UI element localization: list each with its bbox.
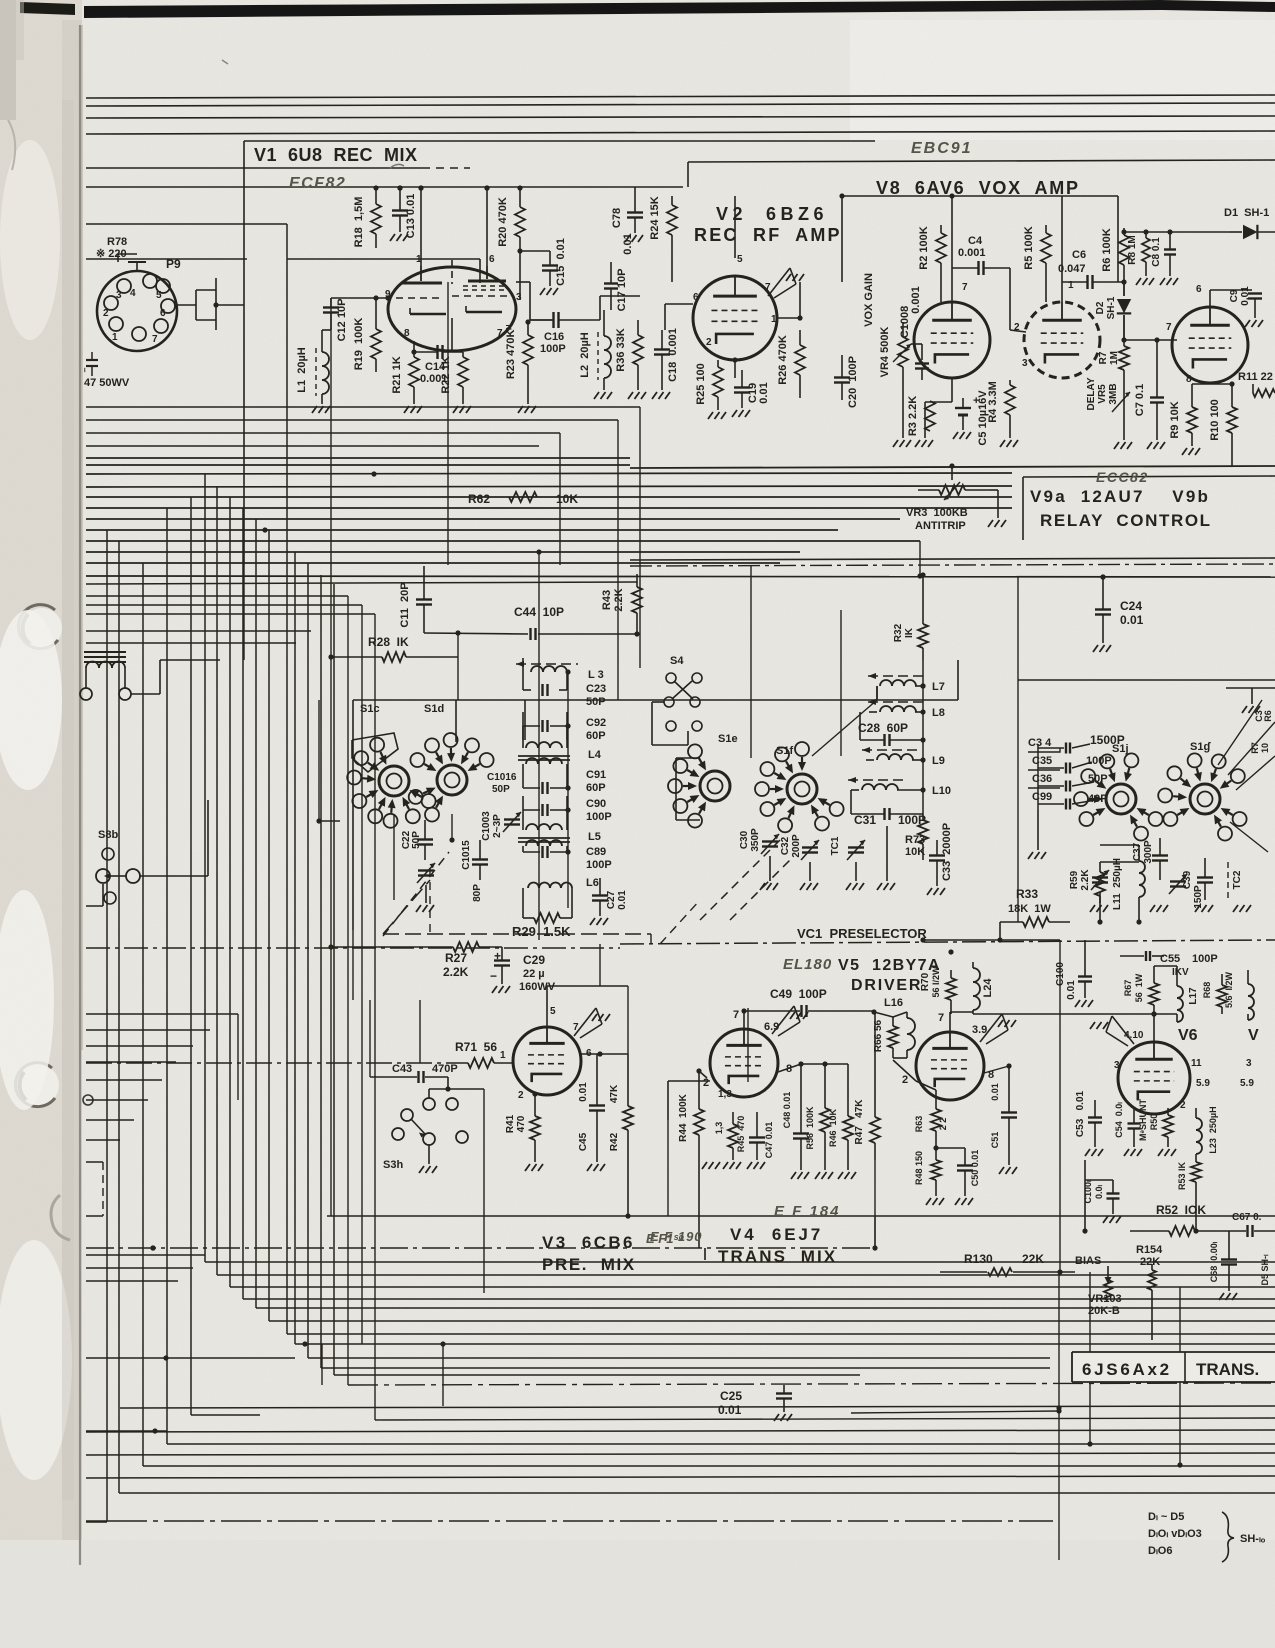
capacitor C24: [1095, 608, 1111, 610]
svg-text:5.6 I/2W: 5.6 I/2W: [1224, 971, 1234, 1008]
ground C78: [625, 235, 630, 242]
capacitor C6: [1086, 275, 1088, 289]
wire row 1413: [851, 1411, 1059, 1413]
resistor R11: [1253, 389, 1275, 397]
wire upper nest row 407: [86, 406, 640, 408]
svg-text:5.9: 5.9: [1196, 1078, 1210, 1089]
svg-text:ANTITRIP: ANTITRIP: [915, 520, 966, 532]
resistor R67: [1149, 983, 1159, 1005]
wire L bank2 rail: [922, 660, 924, 814]
capacitor C99: [1065, 799, 1067, 810]
resistor R7: [1119, 346, 1129, 370]
tube V9b: [1172, 307, 1248, 383]
wire S3h box: [483, 1089, 485, 1293]
svg-text:0.01: 0.01: [718, 1403, 742, 1417]
capacitor C78: [627, 211, 643, 213]
svg-text:C91: C91: [586, 769, 606, 781]
wire L bank top: [455, 700, 457, 742]
wire V8 plate up: [951, 196, 953, 302]
svg-text:C29: C29: [523, 953, 545, 967]
svg-text:S1f: S1f: [776, 745, 793, 757]
wire relay box top: [630, 466, 1275, 468]
tube V5a: [710, 1029, 778, 1097]
wire driver plate bus: [740, 1007, 748, 1009]
svg-text:R20 470K: R20 470K: [497, 197, 509, 247]
ground C22: [416, 905, 421, 912]
wire P9 stub: [136, 262, 138, 271]
svg-text:C43: C43: [392, 1063, 412, 1075]
svg-text:C51: C51: [990, 1132, 1000, 1149]
ground R23: [518, 406, 523, 413]
capacitor C48: [793, 1132, 809, 1134]
svg-text:C15 0.01: C15 0.01: [555, 238, 567, 286]
svg-text:S1ɠ: S1ɠ: [1190, 741, 1211, 753]
svg-text:V3 6CB6: V3 6CB6: [542, 1233, 635, 1252]
svg-text:80P: 80P: [472, 884, 483, 902]
svg-text:L2 20µH: L2 20µH: [579, 332, 591, 378]
svg-text:2: 2: [103, 308, 109, 319]
wire VR3 up: [951, 466, 953, 480]
transformer core: [84, 651, 126, 653]
wire cascade B4: [166, 508, 168, 1444]
svg-text:C1015: C1015: [461, 840, 472, 870]
svg-text:R50: R50: [1149, 1114, 1159, 1131]
wire C16 to C17: [599, 296, 601, 320]
svg-text:5: 5: [737, 254, 743, 265]
resistor R5: [1041, 233, 1051, 263]
inductor L2: [604, 336, 611, 350]
resistor R43: [632, 587, 642, 613]
wire C4 right: [1009, 268, 1011, 330]
ground C19: [732, 410, 737, 417]
resistor R52 zig: [1169, 1226, 1195, 1236]
wire cascade B1: [106, 530, 108, 1521]
node left dot2: [150, 1245, 155, 1250]
svg-text:L 3: L 3: [588, 669, 604, 681]
svg-text:E F 184: E F 184: [774, 1203, 841, 1220]
wire cascade extra verticals: [347, 596, 349, 1385]
dashed tri line: [383, 852, 449, 936]
wire L bank right rail: [567, 672, 569, 908]
wire top bus 5: [86, 167, 430, 169]
svg-text:R24 15K: R24 15K: [649, 196, 661, 239]
resistor R44: [694, 1109, 704, 1135]
svg-text:C28 60P: C28 60P: [858, 721, 908, 735]
arrow L9: [862, 749, 918, 751]
svg-text:0.01: 0.01: [1240, 286, 1251, 306]
wire V9b plate: [1209, 290, 1211, 307]
wire V1 pin9 left: [331, 297, 388, 299]
svg-text:SH-1: SH-1: [1106, 296, 1117, 319]
wire V3 plate: [546, 1010, 548, 1027]
svg-text:L16: L16: [884, 997, 903, 1009]
node R53 bottom: [1193, 1228, 1198, 1233]
wire cascade A10: [320, 575, 322, 1368]
wire relay bottom line: [630, 558, 1275, 560]
ground VR3: [988, 520, 993, 527]
capacitor C22: [417, 838, 433, 840]
svg-text:Dₗ ~ D5: Dₗ ~ D5: [1148, 1511, 1184, 1523]
potentiometer VR5: [1112, 392, 1130, 412]
svg-text:BIAS: BIAS: [1075, 1255, 1101, 1267]
svg-text:C89: C89: [586, 846, 606, 858]
wire vert x705: [704, 1248, 706, 1260]
ground C31b: [877, 883, 882, 890]
resistor R42: [623, 1106, 633, 1130]
wire VR4 wiper: [911, 343, 922, 345]
svg-text:C92: C92: [586, 717, 606, 729]
connector P9 pins: [143, 274, 157, 288]
resistor R26: [795, 345, 805, 375]
svg-text:IKV: IKV: [1172, 967, 1189, 978]
ground V6 cath: [1124, 1149, 1129, 1156]
svg-text:C47 0.01: C47 0.01: [764, 1122, 774, 1159]
wire vert x875b: [874, 1216, 876, 1248]
switch wafer S1c: [379, 766, 409, 796]
inductor L16: [907, 1018, 915, 1034]
capacitor C68: [1221, 1258, 1237, 1260]
wire cascade A7: [286, 224, 288, 1334]
capacitor C90: [541, 804, 543, 816]
svg-text:10K: 10K: [905, 846, 925, 858]
svg-text:R59: R59: [1069, 870, 1080, 889]
page fold edge line: [79, 25, 81, 1565]
transformer L4: [526, 742, 538, 748]
ground C8: [1160, 278, 1165, 285]
svg-text:0.01: 0.01: [1120, 613, 1144, 627]
svg-text:3: 3: [1022, 358, 1028, 369]
svg-text:2: 2: [518, 1090, 524, 1101]
ground R22: [453, 406, 458, 413]
svg-text:7: 7: [962, 282, 968, 293]
arrow L3: [516, 663, 578, 665]
wire V2 grid left: [665, 303, 693, 305]
antenna flag V6: [1112, 1016, 1134, 1044]
svg-text:0.01: 0.01: [990, 1083, 1000, 1101]
crease mark left: [51, 1195, 70, 1240]
svg-text:47 50WV: 47 50WV: [84, 377, 130, 389]
svg-text:PRE. MIX: PRE. MIX: [542, 1255, 636, 1274]
resistor R23: [523, 335, 533, 365]
resistor R28 zig: [382, 652, 406, 662]
wire V3 box bottom: [327, 1215, 1275, 1217]
coil L10: [862, 784, 874, 790]
ground C27: [590, 918, 595, 925]
arrow L10: [848, 779, 904, 781]
svg-text:S3h: S3h: [383, 1159, 403, 1171]
resistor R8: [1142, 238, 1150, 262]
inductor L17: [1177, 986, 1183, 998]
svg-text:V: V: [1248, 1027, 1259, 1044]
capacitor C36: [1065, 781, 1067, 792]
wire mid bus 2: [86, 464, 630, 466]
svg-text:C31: C31: [854, 813, 876, 827]
svg-text:V1 6U8 REC MIX: V1 6U8 REC MIX: [254, 145, 418, 165]
wire V1 stage box top: [244, 140, 875, 142]
svg-text:C35: C35: [1032, 755, 1052, 767]
wire bus y256b: [287, 258, 480, 260]
svg-text:18K 1W: 18K 1W: [1008, 903, 1051, 915]
capacitor C89: [541, 846, 543, 858]
svg-text:350P: 350P: [750, 828, 761, 852]
svg-text:C13 0.01: C13 0.01: [405, 194, 417, 239]
coil L7: [880, 680, 892, 686]
svg-text:EBC91: EBC91: [911, 140, 973, 157]
resistor R47: [870, 1117, 880, 1143]
svg-text:C6: C6: [1072, 249, 1086, 261]
wire vert x1060: [1059, 940, 1061, 1272]
svg-text:MᵊSHUNT: MᵊSHUNT: [1138, 1099, 1148, 1141]
capacitor C12: [323, 306, 339, 308]
svg-text:R32: R32: [893, 623, 904, 642]
svg-text:R78: R78: [107, 236, 127, 248]
capacitor C49: [800, 1005, 802, 1017]
svg-text:C78: C78: [611, 208, 623, 228]
inductor L11: [1139, 861, 1145, 873]
svg-text:3MB: 3MB: [1108, 383, 1119, 404]
resistor R33 zig: [1023, 917, 1049, 927]
svg-text:R28 IK: R28 IK: [368, 635, 409, 649]
svg-text:C1003: C1003: [481, 811, 492, 841]
wire driver junction: [950, 1011, 973, 1013]
capacitor C35: [1065, 763, 1067, 774]
capacitor C1008: [915, 362, 929, 364]
svg-text:1M: 1M: [1109, 351, 1120, 365]
svg-text:S1c: S1c: [360, 703, 380, 715]
svg-text:C99: C99: [1032, 791, 1052, 803]
wire top bus 4: [86, 131, 1275, 134]
svg-text:V6: V6: [1178, 1027, 1198, 1044]
capacitor C15: [542, 264, 558, 266]
capacitor C50: [957, 1164, 973, 1166]
svg-text:L24: L24: [982, 978, 994, 998]
wire V8 box top: [688, 160, 1275, 162]
svg-text:8: 8: [404, 328, 410, 339]
capacitor C54: [1128, 1122, 1141, 1124]
svg-text:100P: 100P: [1086, 755, 1112, 767]
resistor R45: [728, 1124, 738, 1148]
svg-text:C8 0.1: C8 0.1: [1151, 237, 1162, 267]
svg-text:C7 0.1: C7 0.1: [1134, 384, 1146, 416]
node R42 bottom: [625, 1213, 630, 1218]
wire V1 pin3 right: [516, 281, 530, 283]
capacitor C91: [541, 782, 543, 794]
tube V5b: [916, 1032, 984, 1100]
capacitor C31: [883, 808, 885, 820]
stray mark b: [222, 60, 228, 64]
hole punch upper: [22, 608, 62, 648]
wire S4 wiring: [652, 701, 664, 703]
trimmer capacitor C30: [762, 840, 778, 842]
node left dot1: [302, 1341, 307, 1346]
svg-text:TRANS.: TRANS.: [1196, 1360, 1259, 1379]
svg-text:6JS6Ax2: 6JS6Ax2: [1082, 1360, 1172, 1379]
ground C7: [1147, 442, 1152, 449]
svg-text:R26 470K: R26 470K: [777, 335, 789, 385]
coil L8: [880, 706, 892, 712]
node junction y187 a: [373, 185, 378, 190]
ground C51: [999, 1167, 1004, 1174]
node junction v8 top: [839, 193, 844, 198]
svg-text:5: 5: [550, 1006, 556, 1017]
wire left mid connectors: [86, 1247, 95, 1249]
wire V8 box left: [687, 162, 689, 187]
svg-text:R3 2.2K: R3 2.2K: [907, 396, 919, 436]
wire transformer right: [131, 693, 160, 695]
svg-text:S1j: S1j: [1112, 743, 1129, 755]
svg-text:5: 5: [156, 290, 162, 301]
svg-text:IK: IK: [904, 627, 915, 638]
wire mid bus 7: [86, 518, 900, 520]
capacitor C1015: [472, 858, 488, 860]
inductor L24: [973, 968, 980, 982]
ground C5: [953, 432, 958, 439]
wire left lower bus 5: [86, 642, 296, 644]
node VOX junction: [1121, 337, 1126, 342]
svg-text:R5 100K: R5 100K: [1023, 226, 1035, 269]
svg-text:C16: C16: [544, 331, 564, 343]
svg-text:L6: L6: [586, 877, 599, 889]
svg-text:V8 6AV6 VOX AMP: V8 6AV6 VOX AMP: [876, 178, 1080, 198]
svg-text:C27: C27: [606, 890, 617, 909]
resistor R68: [1217, 985, 1227, 1007]
svg-text:L7: L7: [932, 681, 945, 693]
capacitor C11: [416, 598, 432, 600]
svg-text:L10: L10: [932, 785, 951, 797]
svg-text:56 I/2W: 56 I/2W: [931, 966, 941, 998]
ground V8: [915, 440, 920, 447]
wire vert x1180 bottom: [1179, 1287, 1181, 1465]
svg-text:2.2K: 2.2K: [1080, 869, 1091, 891]
svg-text:5.9: 5.9: [1240, 1078, 1254, 1089]
wire V9a plate up: [1061, 196, 1063, 302]
wire bus y256: [86, 258, 247, 260]
svg-text:100P: 100P: [540, 343, 566, 355]
wire C1001 bus: [1084, 1160, 1086, 1180]
node junction y187 b: [418, 185, 423, 190]
wire mid bus 8: [86, 529, 838, 531]
ground C33: [927, 888, 932, 895]
connector P9: [97, 271, 177, 351]
svg-text:60P: 60P: [586, 730, 606, 742]
svg-text:R6: R6: [1263, 710, 1273, 722]
svg-text:DₗOₗ ᴠDₗO3: DₗOₗ ᴠDₗO3: [1148, 1528, 1202, 1540]
tube V9a triode dashed: [1024, 302, 1100, 378]
capacitor C9: [1248, 292, 1262, 294]
resistor R48: [931, 1160, 941, 1180]
capacitor C53: [1088, 1116, 1102, 1118]
wire left lower bus 4: [86, 630, 311, 632]
capacitor C44: [529, 628, 531, 640]
svg-text:R19 100K: R19 100K: [353, 318, 365, 371]
ground C45: [587, 1164, 592, 1171]
brace D note: [1222, 1512, 1234, 1562]
ground C53: [1085, 1149, 1090, 1156]
antenna flag V2: [768, 268, 790, 296]
svg-text:200P: 200P: [791, 834, 802, 858]
switch S3h: [401, 1109, 413, 1121]
crease mark top left: [8, 120, 15, 170]
ground R7: [1114, 442, 1119, 449]
wire R32 up: [922, 575, 924, 612]
svg-text:R44 100K: R44 100K: [678, 1093, 689, 1142]
svg-text:R22 1K: R22 1K: [440, 356, 452, 393]
capacitor C13: [392, 209, 408, 211]
paper texture: [0, 0, 1, 1]
svg-text:3: 3: [116, 290, 122, 301]
diode D2: [1123, 282, 1125, 296]
wire mid bus 1: [86, 457, 630, 459]
resistor R41: [530, 1116, 540, 1140]
svg-text:R11 22: R11 22: [1238, 371, 1273, 383]
svg-text:P9: P9: [166, 257, 181, 271]
resistor R24: [667, 205, 677, 235]
svg-text:7: 7: [765, 282, 771, 293]
capacitor C100: [1078, 975, 1092, 977]
wire bottom verticals: [321, 1344, 323, 1385]
wire upper nest row 433: [86, 432, 560, 434]
svg-text:R9 10K: R9 10K: [1169, 401, 1181, 438]
wire upper nest row 446: [86, 445, 539, 447]
dashed diag S1f: [700, 840, 780, 920]
svg-text:160WV: 160WV: [519, 981, 556, 993]
wire cascade A4: [242, 508, 244, 1299]
svg-text:C39: C39: [1182, 870, 1193, 889]
svg-text:1: 1: [112, 332, 118, 343]
wire hor y986: [547, 985, 628, 987]
svg-text:2: 2: [1180, 1100, 1186, 1111]
svg-text:DRIVER: DRIVER: [851, 977, 922, 994]
switch wafer S1e: [700, 771, 730, 801]
svg-text:S8b: S8b: [98, 829, 118, 841]
svg-text:C36: C36: [1032, 773, 1052, 785]
capacitor C25: [776, 1392, 792, 1394]
svg-text:C68 0.00ₗ: C68 0.00ₗ: [1209, 1241, 1219, 1282]
svg-text:C67 0.: C67 0.: [1232, 1212, 1262, 1223]
capacitor C33: [929, 854, 945, 856]
wire vert x600: [599, 944, 601, 986]
ground C50: [955, 1198, 960, 1205]
arrow L8: [868, 701, 925, 703]
resistor R3: [925, 401, 935, 431]
wire upper nest row 420: [86, 419, 618, 421]
wire C34 rail: [1038, 747, 1064, 749]
transformer coil: [86, 662, 99, 669]
wire V1 box left drop: [243, 141, 245, 565]
svg-text:R33: R33: [1016, 887, 1038, 901]
potentiometer VR3: [939, 485, 965, 495]
transformer L5: [526, 824, 538, 830]
switch wafer S1g: [1190, 784, 1220, 814]
svg-text:V9a 12AU7 V9b: V9a 12AU7 V9b: [1030, 487, 1210, 506]
svg-text:VR4 500K: VR4 500K: [879, 327, 891, 378]
svg-text:TC1: TC1: [830, 836, 841, 855]
svg-text:C24: C24: [1120, 599, 1142, 613]
resistor R53: [1191, 1162, 1201, 1182]
wire cascade A2: [216, 487, 218, 1275]
svg-text:R29 1.5K: R29 1.5K: [512, 924, 571, 939]
tube V1 interior: [420, 266, 422, 281]
svg-text:7: 7: [152, 334, 158, 345]
ground R9: [1182, 448, 1187, 455]
wire vert x448: [447, 282, 449, 565]
wire vert x244 low: [243, 565, 245, 660]
wire vert x841: [840, 610, 842, 756]
stray mark a: [390, 164, 404, 168]
coil L6: [528, 883, 539, 889]
capacitor C43: [417, 1071, 419, 1083]
svg-text:R18 1,5M: R18 1,5M: [353, 197, 365, 248]
